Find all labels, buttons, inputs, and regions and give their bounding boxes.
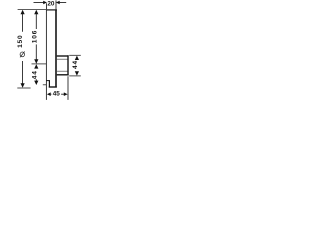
node line at 106/44 boundary bbox=[32, 63, 47, 65]
dim 45: right extension line bbox=[67, 76, 69, 100]
svg-text:45: 45 bbox=[53, 90, 61, 97]
handle (side view) bbox=[57, 55, 69, 75]
svg-text:44: 44 bbox=[31, 70, 38, 79]
dim 45: label backing bbox=[51, 90, 61, 96]
dim 45: right arrowhead bbox=[64, 92, 68, 96]
dim 44 right: bottom arrowhead bbox=[75, 71, 79, 75]
dim D150: bottom extension line bbox=[17, 87, 30, 89]
escutcheon plate (side view) bbox=[46, 9, 57, 100]
dim D150: top arrowhead bbox=[21, 10, 25, 14]
dim D150: bottom arrowhead bbox=[21, 83, 25, 87]
svg-text:44: 44 bbox=[72, 60, 79, 69]
dim 20: left tail wire bbox=[34, 2, 44, 4]
svg-text:150: 150 bbox=[17, 34, 24, 47]
dim 106: bottom arrowhead bbox=[34, 59, 38, 63]
dim 44 left: bottom arrowhead bbox=[34, 81, 38, 85]
dim 106: upper wire bbox=[35, 14, 37, 29]
bottom stub box bottom edge bbox=[49, 86, 57, 88]
plate top extension line bbox=[18, 9, 46, 11]
dim 44 left: top arrowhead bbox=[34, 64, 38, 68]
bottom stub box left edge bbox=[48, 80, 50, 87]
dim 106: lower wire bbox=[35, 44, 37, 60]
dim 20: left extension line bbox=[46, 3, 48, 9]
dim 20: right tail wire bbox=[59, 2, 66, 4]
dim 20: left arrowhead bbox=[43, 1, 47, 5]
dim 44 right: bottom extension line bbox=[69, 75, 81, 77]
dim 44 left: bottom extension line bbox=[43, 84, 46, 86]
dim D150: upper wire bbox=[22, 14, 24, 32]
svg-text:106: 106 bbox=[31, 30, 38, 43]
dim 44 left: lower wire bbox=[35, 79, 37, 81]
dim 45: wire bbox=[50, 93, 64, 95]
dim D150: diameter symbol bbox=[20, 52, 25, 58]
dim 44 right: top extension line bbox=[69, 54, 81, 56]
dim 20: right arrowhead bbox=[56, 1, 60, 5]
dim 45: left arrowhead bbox=[47, 92, 51, 96]
dim D150: lower wire bbox=[22, 61, 24, 84]
dim 106: top arrowhead bbox=[34, 10, 38, 14]
plate bottom step bbox=[46, 80, 50, 82]
svg-text:20: 20 bbox=[47, 0, 55, 7]
dim 44 right: top arrowhead bbox=[75, 56, 79, 60]
dim 20: right extension line bbox=[55, 0, 57, 9]
